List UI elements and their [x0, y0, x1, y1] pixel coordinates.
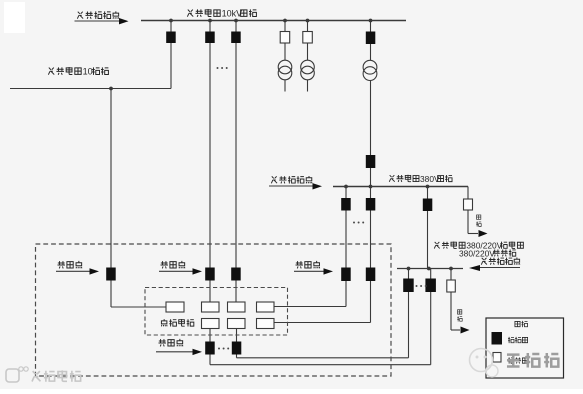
circuit breaker at connection point 3b: [341, 268, 351, 282]
junction on overhead line x=408.5: [407, 267, 411, 271]
label: load (vertical): [477, 215, 481, 219]
circuit breaker on 380V bus x=370: [366, 198, 376, 211]
inverter row1 #2: [228, 302, 246, 312]
wire: 380V bus: [333, 186, 468, 188]
fuse/switch (open rect) x=285: [280, 32, 290, 44]
label: 10kV public line: [48, 68, 54, 75]
junction on 10kV bus x=171: [169, 19, 173, 23]
circuit breaker on overhead line x=430: [425, 279, 436, 293]
wire stub: [284, 80, 286, 92]
fuse to load (open rect) x=468: [464, 199, 473, 210]
wire stub: [307, 80, 309, 92]
ellipsis between overhead feeders: [416, 285, 418, 287]
wire: [370, 211, 372, 268]
wire: 10kV public line: [10, 88, 171, 90]
circuit breaker on 380V bus x=346: [341, 198, 351, 211]
legend box: [486, 318, 564, 378]
label: 10kV bus name: [187, 10, 193, 17]
wire: 10kV feeder drop x=236 down to PV: [235, 43, 237, 268]
circuit breaker on 10kV bus x=210: [205, 32, 215, 44]
junction on 10kV line: [109, 87, 113, 91]
svg-text:380/220V: 380/220V: [459, 248, 495, 258]
junction on 380V bus x=427.5: [426, 185, 430, 189]
wire: down and left to inverter row2: [370, 281, 372, 323]
node: grid-connection point 3 label: [296, 261, 303, 268]
node: PCC label bottom right: [481, 258, 487, 265]
wire: branch down from 10kV line: [110, 89, 112, 268]
label: 380/220V distribution box: [434, 242, 439, 249]
circuit breaker on 380V bus x=427: [423, 199, 433, 212]
watermark: face: [470, 349, 493, 372]
wire: [370, 44, 372, 61]
wire: drop1 lower: [170, 43, 172, 89]
circuit breaker on 10kV bus x=236: [231, 32, 241, 44]
wire: [345, 211, 347, 268]
wire: [450, 269, 452, 281]
svg-text:380V: 380V: [420, 174, 440, 184]
label: load (vertical) 2: [458, 310, 462, 314]
junction on 10kV bus x=307.5: [306, 19, 310, 23]
wire: down to 380/220V overhead line: [427, 211, 429, 269]
label: breaker: [508, 337, 514, 343]
inverter row1 #1: [202, 302, 220, 312]
wire: [209, 281, 211, 303]
node: grid-connection point 1 label: [58, 261, 65, 268]
node: PCC label for 380V bus: [271, 176, 277, 183]
transformer (two circles) x=285: [278, 60, 292, 74]
wire: [430, 269, 432, 279]
junction on 380V bus x=370.5: [369, 185, 373, 189]
transformer (two circles) x=307.5: [301, 60, 315, 74]
circuit breaker at connection point 1: [106, 268, 116, 281]
inverter row1 #3: [257, 302, 275, 312]
inverter row2 #1: [202, 319, 220, 329]
circuit breaker above 380V bus: [366, 155, 376, 168]
ellipsis between 10kV feeders: [217, 67, 219, 69]
junction on overhead line x=451: [449, 267, 453, 271]
fuse to load (open rect) x=451: [447, 280, 456, 292]
circuit breaker PV outlet 2: [232, 342, 242, 355]
svg-text:10kV: 10kV: [222, 9, 243, 19]
junction on 10kV bus x=236: [234, 19, 238, 23]
wire: [427, 187, 429, 199]
node: PCC label (10kV public connection point): [77, 12, 83, 19]
circuit breaker at connection point 2: [205, 268, 215, 281]
wire: [236, 329, 238, 342]
wire: [370, 168, 372, 187]
junction on overhead line x=428.8: [427, 267, 431, 271]
label: 380V bus name: [389, 175, 394, 182]
wire: drop6 upper: [370, 21, 372, 32]
boundary: large dashed box: [36, 244, 392, 376]
wire: [307, 43, 309, 61]
junction on 10kV bus x=285: [283, 19, 287, 23]
junction on 380V bus x=346: [344, 185, 348, 189]
inverter (leftmost): [166, 302, 184, 312]
watermark: bottom-left logo: [6, 369, 19, 382]
wire: [370, 80, 372, 155]
ellipsis between 380V feeders: [353, 222, 355, 224]
boundary: PV plant small dashed box: [145, 288, 288, 336]
inverter row2 #3: [257, 319, 275, 329]
wire: transformer feeder x=307.5: [307, 21, 309, 32]
fuse/switch (open rect) x=307.5: [303, 32, 313, 44]
wire: 10kV feeder drop x=210 upper: [209, 21, 211, 32]
circuit breaker on overhead line x=408: [403, 279, 414, 293]
circuit breaker at connection point 3: [231, 268, 241, 281]
wire: 10kV feeder drop x=236 upper: [235, 21, 237, 32]
wire: [408, 269, 410, 279]
wire: down and left to inverter row1: [345, 281, 347, 307]
label: legend title: [515, 321, 520, 326]
junction on 10kV bus x=210: [208, 19, 212, 23]
circuit breaker PV outlet 1: [205, 342, 215, 355]
label: PV plant: [161, 319, 167, 326]
legend symbol: inverter: [493, 353, 501, 363]
wire: [467, 187, 469, 200]
circuit breaker at connection point 4b: [366, 268, 376, 282]
wire: [235, 281, 237, 303]
wire: load tail with arrow: [467, 210, 469, 234]
wire: drop1 upper: [170, 21, 172, 32]
node: grid-connection point 4 label: [159, 339, 166, 346]
transformer 10kV/380V: [363, 60, 377, 74]
wire: [284, 43, 286, 61]
node: grid-connection point 2 label: [161, 261, 168, 268]
wire: transformer feeder x=285: [284, 21, 286, 32]
wire: down, left to PV breaker 2: [408, 292, 410, 358]
label: inverter: [508, 357, 514, 363]
wire: [209, 329, 211, 342]
legend symbol: circuit breaker: [492, 332, 503, 345]
wire: down, left to PV breaker 1: [430, 292, 432, 365]
circuit breaker on 10kV bus x=370: [366, 32, 376, 45]
wire: [345, 187, 347, 199]
svg-text:10: 10: [83, 67, 93, 77]
wire: [370, 187, 372, 199]
inverter row2 #2: [228, 319, 246, 329]
wire: 10kV bus: [141, 20, 406, 22]
watermark: name: [507, 355, 520, 367]
wire: 380/220V overhead line bus: [397, 268, 463, 270]
circuit breaker CB1 on 10kV bus: [166, 32, 176, 44]
ellipsis between PV outlets: [218, 348, 220, 350]
wire: load tail with arrow: [450, 292, 452, 330]
wire: to leftmost inverter: [110, 281, 112, 308]
junction on 10kV bus x=370.5: [369, 19, 373, 23]
wire: 10kV feeder drop x=210 down to PV: [209, 43, 211, 268]
